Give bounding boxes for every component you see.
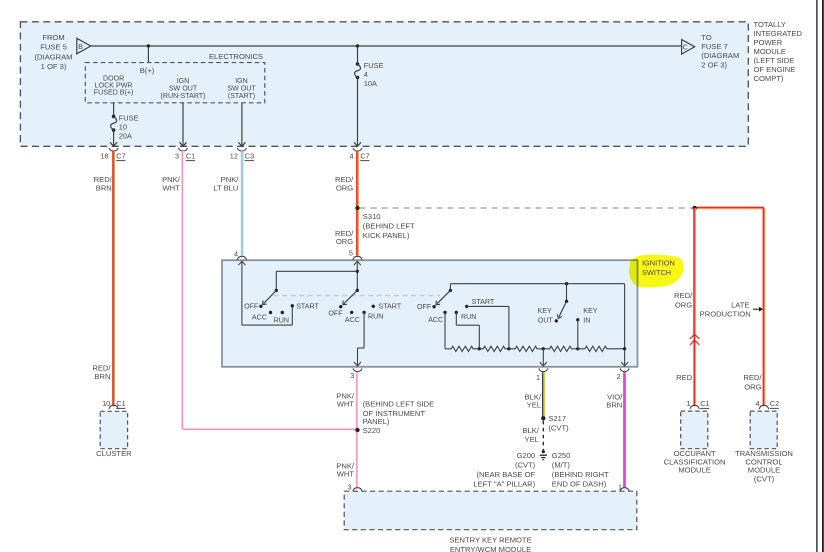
svg-text:C: C bbox=[683, 43, 688, 52]
switch: KEY OUT bbox=[537, 284, 568, 325]
svg-text:IGNITION: IGNITION bbox=[642, 259, 675, 268]
box: ELECTRONICS section of TIPM bbox=[85, 63, 264, 103]
wire: ignition pin 5 feed into switch bbox=[356, 261, 358, 290]
wire: BLK/YEL dashed (M/T) to ground bbox=[542, 421, 544, 450]
svg-text:YEL: YEL bbox=[527, 401, 541, 410]
wire: RED/ORG from S310 to ignition switch pin 5 bbox=[356, 208, 358, 256]
wire: RED/ORG down to TRANSMISSION CONTROL MODULE bbox=[762, 208, 764, 406]
svg-text:ORG: ORG bbox=[744, 382, 761, 391]
svg-text:3: 3 bbox=[175, 151, 179, 160]
wire: wafer-3 START contact to ladder bbox=[467, 305, 509, 307]
connector pin 3 C1 bbox=[179, 148, 188, 151]
svg-text:10: 10 bbox=[119, 122, 127, 131]
svg-text:(DIAGRAM: (DIAGRAM bbox=[701, 51, 739, 60]
svg-text:(BEHIND LEFT: (BEHIND LEFT bbox=[363, 222, 415, 231]
svg-text:OFF: OFF bbox=[328, 310, 343, 318]
switch wafer 3 (OFF-ACC-RUN-START key resistor ladder) bbox=[417, 289, 495, 324]
module box: TRANSMISSION CONTROL MODULE (CVT) bbox=[759, 405, 768, 409]
resistor ladder R4 bbox=[543, 346, 578, 351]
svg-text:10A: 10A bbox=[364, 79, 377, 88]
resistor ladder R5 bbox=[578, 346, 614, 351]
svg-text:RUN: RUN bbox=[461, 313, 476, 321]
svg-text:C7: C7 bbox=[116, 151, 125, 160]
node ladder junction (RUN) bbox=[478, 347, 481, 350]
inline connector chevrons bbox=[690, 334, 699, 339]
svg-text:5: 5 bbox=[349, 248, 353, 257]
ground G200 / G250 bbox=[540, 450, 547, 460]
svg-text:4: 4 bbox=[364, 70, 368, 79]
svg-text:POWER: POWER bbox=[754, 38, 783, 47]
svg-text:TOTALLY: TOTALLY bbox=[754, 20, 787, 29]
wire: DOOR LOCK PWR to fuse 10 bbox=[113, 103, 115, 117]
svg-text:ENTRY/WCM MODULE: ENTRY/WCM MODULE bbox=[450, 545, 531, 552]
wire: B(+) bus from connector B to connector C bbox=[91, 45, 682, 47]
svg-text:C7: C7 bbox=[360, 151, 369, 160]
wire: RED/ORG from pin 4 C7 to splice S310 bbox=[356, 151, 358, 208]
resistor ladder R3 bbox=[509, 346, 543, 351]
wire segment: PNK/WHT horizontal into S220 bbox=[183, 428, 357, 430]
svg-text:G200: G200 bbox=[517, 451, 536, 460]
node: bus junction to fuse 4 bbox=[356, 44, 359, 47]
svg-text:C2: C2 bbox=[770, 399, 779, 408]
module box: OCCUPANT CLASSIFICATION MODULE bbox=[690, 405, 699, 409]
wire: fuse 4 to pin 4 C7 bbox=[357, 78, 359, 147]
svg-text:KEY: KEY bbox=[583, 307, 597, 315]
switch wafer 2 (OFF-ACC-RUN-START) bbox=[328, 289, 401, 324]
wire: IGN SW OUT (RUN-START) to pin 3 C1 bbox=[182, 103, 184, 147]
svg-text:LEFT "A" PILLAR): LEFT "A" PILLAR) bbox=[473, 479, 535, 488]
svg-text:RUN: RUN bbox=[368, 313, 383, 321]
splice S220 bbox=[355, 428, 359, 432]
module box: Totally Integrated Power Module (TIPM) bbox=[20, 22, 748, 147]
connector pin 12 C3 bbox=[237, 148, 246, 151]
svg-text:20A: 20A bbox=[119, 132, 132, 141]
wire: feed to wafer-1 pivot bbox=[276, 270, 357, 272]
svg-text:B(+): B(+) bbox=[140, 66, 155, 75]
resistor ladder R1 bbox=[445, 346, 479, 351]
svg-text:RED/: RED/ bbox=[674, 291, 693, 300]
wire: wafer-3 RUN contact to ladder bbox=[455, 312, 457, 325]
svg-text:4: 4 bbox=[234, 249, 238, 258]
svg-text:FUSE: FUSE bbox=[364, 61, 384, 70]
svg-text:MODULE: MODULE bbox=[754, 47, 787, 56]
wire: PNK/WHT S220 to SENTRY KEY pin 3 bbox=[356, 431, 358, 488]
svg-text:12: 12 bbox=[230, 151, 238, 160]
svg-text:ACC: ACC bbox=[428, 316, 443, 324]
svg-text:S310: S310 bbox=[363, 212, 381, 221]
svg-text:ORG: ORG bbox=[336, 237, 353, 246]
svg-text:C1: C1 bbox=[700, 399, 709, 408]
svg-text:BRN: BRN bbox=[96, 183, 112, 192]
svg-text:RED: RED bbox=[676, 373, 693, 382]
svg-text:YEL: YEL bbox=[525, 435, 539, 444]
svg-text:4: 4 bbox=[756, 399, 760, 408]
wire: VIO/BRN ignition pin 2 to SENTRY KEY pin 1 bbox=[623, 372, 625, 488]
node: late production branch junction bbox=[692, 206, 696, 210]
svg-text:PANEL): PANEL) bbox=[363, 417, 390, 426]
svg-text:BRN: BRN bbox=[94, 372, 110, 381]
wire: ignition pin 4 to START contact bracket bbox=[241, 261, 243, 325]
svg-text:CLUSTER: CLUSTER bbox=[96, 449, 132, 458]
off-page connector triangle C bbox=[682, 40, 695, 55]
svg-text:OFF: OFF bbox=[244, 302, 259, 310]
svg-text:FROM: FROM bbox=[42, 33, 64, 42]
svg-text:(M/T): (M/T) bbox=[552, 461, 571, 470]
node: KEY OUT tap on rail bbox=[565, 282, 568, 285]
node ladder junction (KEY IN) bbox=[576, 347, 579, 350]
svg-text:FUSE 5: FUSE 5 bbox=[40, 43, 67, 52]
svg-text:FUSE: FUSE bbox=[119, 113, 139, 122]
svg-text:FUSE 7: FUSE 7 bbox=[701, 42, 728, 51]
svg-text:IN: IN bbox=[583, 317, 590, 325]
module box: IGNITION SWITCH bbox=[222, 260, 638, 367]
svg-text:START: START bbox=[296, 302, 319, 310]
svg-text:3: 3 bbox=[348, 483, 352, 492]
wire: RED/ORG down to inline connector (OCM branch) bbox=[693, 208, 695, 334]
svg-text:3: 3 bbox=[350, 371, 354, 380]
svg-text:ORG: ORG bbox=[675, 301, 692, 310]
svg-text:2 OF 3): 2 OF 3) bbox=[701, 60, 727, 69]
connector pin 4 C7 bbox=[353, 148, 362, 151]
svg-text:S220: S220 bbox=[363, 426, 381, 435]
svg-text:BLK/: BLK/ bbox=[522, 426, 539, 435]
svg-text:(BEHIND RIGHT: (BEHIND RIGHT bbox=[552, 470, 609, 479]
fuse F10 20A bbox=[112, 115, 116, 119]
arrow: late production pointer bbox=[753, 308, 760, 310]
svg-text:SWITCH: SWITCH bbox=[642, 268, 671, 277]
module box: CLUSTER bbox=[109, 405, 118, 409]
svg-text:C3: C3 bbox=[245, 151, 254, 160]
page frame line (inner) bbox=[816, 0, 818, 552]
wire: IGN SW OUT (START) to pin 12 C3 bbox=[241, 103, 243, 147]
splice S310 bbox=[355, 206, 359, 210]
svg-text:RUN: RUN bbox=[274, 316, 289, 324]
svg-text:(LEFT SIDE: (LEFT SIDE bbox=[754, 56, 795, 65]
svg-text:OF ENGINE: OF ENGINE bbox=[754, 65, 796, 74]
svg-text:OUT: OUT bbox=[538, 317, 554, 325]
svg-text:ACC: ACC bbox=[345, 316, 360, 324]
connector pin 5 (ignition switch, top) bbox=[353, 256, 362, 260]
fuse F4 10A bbox=[356, 62, 360, 66]
svg-text:OFF: OFF bbox=[417, 303, 432, 311]
wire: BLK/YEL ignition pin 1 to S217 bbox=[542, 372, 544, 418]
node ladder junction (START) bbox=[507, 347, 510, 350]
wire: rail to ignition pin 2 bbox=[624, 349, 626, 366]
wire: wafer-3 ACC contact to ladder bbox=[444, 312, 446, 348]
wire: RED/BRN from pin 18 C7 to CLUSTER bbox=[112, 151, 114, 406]
svg-text:KICK PANEL): KICK PANEL) bbox=[363, 231, 410, 240]
svg-text:ACC: ACC bbox=[252, 314, 267, 322]
svg-text:WHT: WHT bbox=[337, 470, 355, 479]
wire: bus to fuse 4 bbox=[357, 46, 359, 64]
svg-text:MODULE: MODULE bbox=[678, 466, 711, 475]
svg-text:END OF DASH): END OF DASH) bbox=[552, 479, 607, 488]
wire: PNK/WHT ignition pin 3 to S220 bbox=[356, 372, 358, 429]
svg-text:KEY: KEY bbox=[537, 307, 551, 315]
connector pin 1 (ignition switch, bottom) bbox=[539, 368, 548, 371]
svg-text:4: 4 bbox=[349, 151, 353, 160]
svg-text:(RUN-START): (RUN-START) bbox=[160, 92, 205, 100]
connector pin 18 C7 bbox=[109, 148, 118, 151]
page frame line (outer edge) bbox=[822, 0, 824, 552]
svg-text:18: 18 bbox=[100, 151, 108, 160]
highlight: IGNITION SWITCH callout bbox=[629, 255, 684, 288]
svg-text:(START): (START) bbox=[228, 92, 255, 100]
node ladder junction (pin 2 rail) bbox=[623, 347, 626, 350]
svg-text:ORG: ORG bbox=[336, 183, 353, 192]
wire: ladder output to ignition pin 1 bbox=[542, 349, 544, 366]
wire: RED down to OCCUPANT CLASSIFICATION MODULE bbox=[693, 334, 695, 406]
node: bus junction to B(+) electronics feed bbox=[147, 44, 150, 47]
wire: wafer-3 pivot feed to KEY OUT rail bbox=[449, 284, 451, 291]
svg-text:1: 1 bbox=[536, 373, 540, 382]
node ladder junction (output pin 1) bbox=[542, 347, 545, 350]
svg-text:LT BLU: LT BLU bbox=[213, 183, 238, 192]
wire: B(+) drop to ELECTRONICS box bbox=[147, 46, 149, 63]
svg-text:B: B bbox=[78, 42, 83, 51]
svg-text:ELECTRONICS: ELECTRONICS bbox=[209, 52, 263, 61]
svg-text:1: 1 bbox=[618, 483, 622, 492]
svg-text:2: 2 bbox=[616, 372, 620, 381]
svg-text:(NEAR BASE OF: (NEAR BASE OF bbox=[477, 470, 536, 479]
svg-text:(DIAGRAM: (DIAGRAM bbox=[35, 52, 73, 61]
wire: RED/ORG horizontal to TCM drop bbox=[695, 206, 764, 208]
contact: KEY IN bbox=[576, 307, 598, 349]
svg-text:INTEGRATED: INTEGRATED bbox=[754, 29, 803, 38]
svg-text:COMPT): COMPT) bbox=[754, 74, 784, 83]
svg-text:(CVT): (CVT) bbox=[548, 423, 569, 432]
svg-text:C1: C1 bbox=[116, 399, 125, 408]
svg-text:LATE: LATE bbox=[731, 300, 749, 309]
svg-text:WHT: WHT bbox=[337, 400, 355, 409]
svg-text:(CVT): (CVT) bbox=[515, 461, 536, 470]
svg-text:1: 1 bbox=[686, 399, 690, 408]
wire: wafer-2 RUN contact to ignition pin 3 bbox=[363, 312, 365, 348]
wire: dashed branch from S310 to late-production node bbox=[360, 207, 695, 209]
connector pin 2 (ignition switch, bottom) bbox=[620, 368, 629, 371]
svg-text:G250: G250 bbox=[552, 451, 571, 460]
mechanical linkage (dashed) between switch wafers bbox=[274, 295, 441, 297]
svg-text:START: START bbox=[379, 302, 402, 310]
svg-text:PRODUCTION: PRODUCTION bbox=[700, 310, 751, 319]
svg-text:(BEHIND LEFT SIDE: (BEHIND LEFT SIDE bbox=[363, 400, 435, 409]
resistor ladder R2 bbox=[479, 346, 509, 351]
off-page connector triangle B bbox=[77, 38, 91, 54]
svg-text:FUSED B(+): FUSED B(+) bbox=[94, 88, 134, 96]
wire: fuse 10 to pin 18 C7 bbox=[113, 130, 115, 146]
svg-text:RED/: RED/ bbox=[743, 373, 762, 382]
svg-text:MODULE: MODULE bbox=[748, 466, 781, 475]
wire: PNK/LT BLU from pin 12 C3 to ignition switch pin 4 bbox=[240, 151, 242, 256]
svg-text:WHT: WHT bbox=[163, 183, 181, 192]
switch wafer 1 (OFF-ACC-RUN-START) bbox=[244, 289, 319, 325]
svg-text:S217: S217 bbox=[548, 414, 566, 423]
svg-text:10: 10 bbox=[102, 399, 110, 408]
module box: SENTRY KEY REMOTE ENTRY/WCM MODULE bbox=[353, 488, 362, 492]
svg-text:BRN: BRN bbox=[606, 401, 622, 410]
svg-text:START: START bbox=[472, 298, 495, 306]
splice S217 bbox=[541, 416, 545, 420]
svg-text:SENTRY KEY REMOTE: SENTRY KEY REMOTE bbox=[449, 536, 531, 545]
svg-text:(CVT): (CVT) bbox=[754, 474, 775, 483]
wire: PNK/WHT from pin 3 C1 down to S220 bbox=[181, 151, 183, 429]
svg-text:TO: TO bbox=[701, 33, 712, 42]
svg-text:C1: C1 bbox=[186, 151, 195, 160]
svg-text:1 OF 3): 1 OF 3) bbox=[41, 62, 67, 71]
node: feed junction to switch wafer 1 bbox=[356, 270, 359, 273]
connector pin 4 (ignition switch, top) bbox=[237, 256, 246, 260]
connector pin 3 (ignition switch, bottom) bbox=[353, 368, 362, 371]
